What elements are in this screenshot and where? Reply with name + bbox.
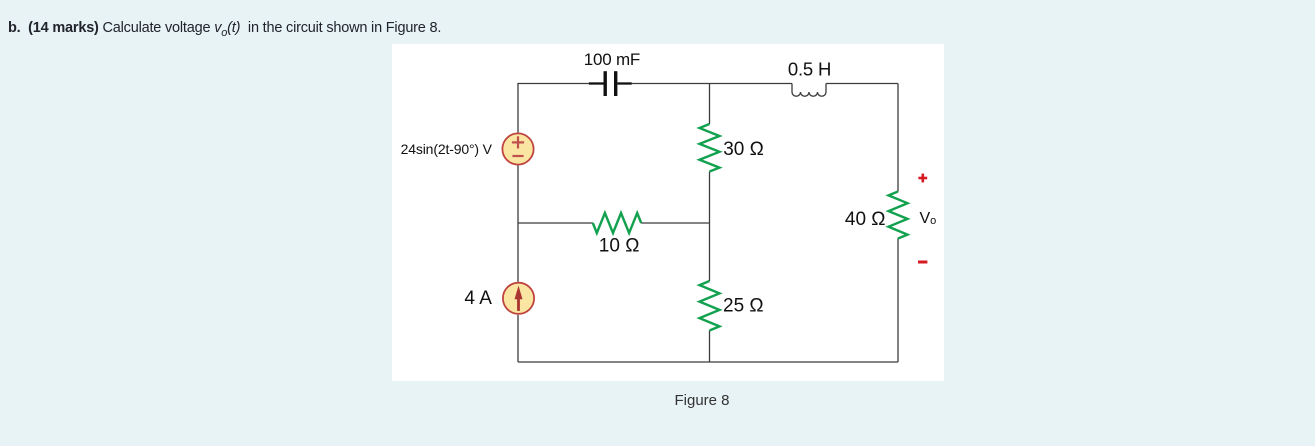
svg-text:40 Ω: 40 Ω	[845, 209, 886, 230]
wire left lower below current source	[517, 315, 519, 362]
svg-text:10 Ω: 10 Ω	[599, 236, 640, 257]
wire top between capacitor and inductor	[632, 83, 792, 85]
wire middle horizontal left of 10 ohm	[518, 222, 593, 224]
polarity plus sign	[918, 174, 927, 183]
figure caption	[560, 392, 844, 409]
resistor R1 30 ohm (vertical zigzag)	[700, 124, 720, 172]
white figure panel	[392, 44, 944, 381]
svg-text:24sin(2t-90°) V: 24sin(2t-90°) V	[401, 141, 493, 157]
svg-text:Vo: Vo	[920, 210, 937, 227]
wire right vertical top	[897, 84, 899, 192]
current source I1 4 A	[503, 283, 534, 314]
svg-text:25 Ω: 25 Ω	[723, 296, 764, 317]
svg-text:30 Ω: 30 Ω	[723, 139, 764, 160]
capacitor C1 100 mF	[589, 71, 632, 96]
resistor R3 40 ohm (vertical zigzag)	[889, 192, 908, 239]
wire middle vertical center	[709, 172, 711, 282]
problem statement text	[8, 20, 441, 39]
wire bottom	[518, 361, 898, 363]
wire middle horizontal right of 10 ohm	[641, 222, 709, 224]
wire right vertical bottom	[897, 239, 899, 363]
polarity minus sign	[918, 261, 927, 264]
inductor L1 0.5 H coil	[792, 84, 826, 97]
wire middle vertical bottom	[709, 331, 711, 363]
wire left middle (between sources)	[517, 165, 519, 282]
wire top-right segment	[826, 83, 898, 85]
svg-text:4 A: 4 A	[464, 288, 492, 309]
wire middle vertical top	[709, 84, 711, 125]
wire top-left segment	[518, 84, 589, 133]
resistor R4 10 ohm (horizontal zigzag)	[593, 213, 641, 233]
resistor R2 25 ohm (vertical zigzag)	[700, 281, 720, 331]
voltage source V1	[502, 133, 533, 164]
svg-text:0.5 H: 0.5 H	[788, 59, 831, 80]
svg-text:100 mF: 100 mF	[584, 50, 640, 69]
